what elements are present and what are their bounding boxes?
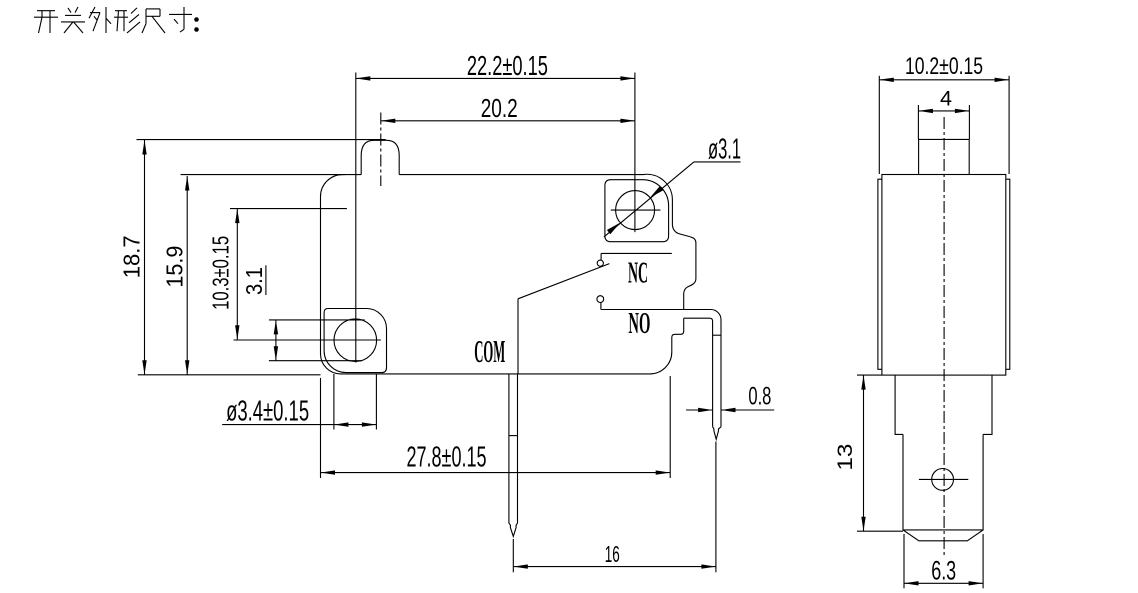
10.2 extension lines xyxy=(878,76,880,174)
NC fixed contact line xyxy=(601,252,672,254)
upper-right hole horizontal centerline xyxy=(611,209,661,211)
dimension 10.2±0.15 line (side view) xyxy=(879,79,1009,81)
NC contact circle xyxy=(597,260,603,266)
dimension 20.2 line xyxy=(381,120,635,122)
dimension 0.8 line xyxy=(686,409,713,411)
svg-text:6.3: 6.3 xyxy=(931,555,956,585)
switch body outline (front view) xyxy=(321,174,696,374)
side view left rib xyxy=(878,179,882,369)
side view right rib xyxy=(1006,179,1010,369)
13 top extension line xyxy=(857,374,882,376)
NO pin crimp tick xyxy=(713,334,721,336)
svg-text:10.2±0.15: 10.2±0.15 xyxy=(905,53,983,80)
side view plunger button xyxy=(919,139,970,174)
upper-right hole vertical centerline / 22.2-20.2 extension xyxy=(634,73,636,233)
dimension 18.7 line xyxy=(144,140,146,375)
svg-text:ø3.1: ø3.1 xyxy=(708,134,741,166)
3.1 top extension line xyxy=(269,319,365,321)
6.3 extension lines xyxy=(903,534,905,588)
18.7 top extension line xyxy=(137,139,386,141)
dimension 4 line (side view) xyxy=(918,110,969,112)
svg-text:22.2±0.15: 22.2±0.15 xyxy=(467,50,548,81)
16 left extension line xyxy=(512,539,514,572)
NO terminal bent pin inner edge xyxy=(684,318,713,427)
svg-text:4: 4 xyxy=(940,87,952,110)
side view body xyxy=(882,175,1006,376)
NO contact circle xyxy=(597,296,604,303)
dimension 27.8±0.15 line xyxy=(321,472,671,474)
COM lever vertical line xyxy=(517,299,519,374)
svg-text:15.9: 15.9 xyxy=(161,246,187,288)
side view terminal base block xyxy=(895,375,992,434)
side view centerline (dash-dot) xyxy=(943,117,945,556)
svg-text:16: 16 xyxy=(605,541,620,567)
15.9 top extension line xyxy=(181,174,345,176)
terminal hole horizontal centerline xyxy=(919,478,968,480)
dimension 13 line (side view) xyxy=(863,375,865,531)
lower-left hole horizontal centerline xyxy=(234,339,381,341)
svg-text:3.1: 3.1 xyxy=(241,267,267,295)
title 开关外形尺寸: (drawn strokes) xyxy=(34,7,199,33)
27.8 left extension line xyxy=(320,378,322,478)
side view terminal hole xyxy=(932,469,954,491)
movable lever from COM to NC xyxy=(518,264,609,299)
svg-text:ø3.4±0.15: ø3.4±0.15 xyxy=(226,396,309,428)
lower-left mounting hole Ø3.4 xyxy=(334,319,377,362)
dimension 6.3 line (side view) xyxy=(904,582,983,584)
svg-text:13: 13 xyxy=(834,444,857,471)
COM terminal pin xyxy=(509,374,518,537)
upper-right mounting hole Ø3.1 xyxy=(616,191,655,230)
dimension 3.1 line xyxy=(275,320,277,361)
dimension Ø3.4±0.15 extension lines xyxy=(333,374,335,430)
lower-left mounting pad xyxy=(324,309,386,373)
3.1 bottom extension line xyxy=(269,360,362,362)
dimension 15.9 line xyxy=(186,176,188,375)
svg-text:18.7: 18.7 xyxy=(119,235,145,278)
upper-right mounting pad xyxy=(605,180,669,242)
svg-text:27.8±0.15: 27.8±0.15 xyxy=(407,442,487,474)
side view terminal tab with chamfered tip xyxy=(903,434,983,540)
svg-text:0.8: 0.8 xyxy=(748,383,771,411)
svg-text:NO: NO xyxy=(628,305,650,340)
plunger button on body top xyxy=(361,140,399,174)
dimension 10.3±0.15 line xyxy=(236,209,238,340)
16 right extension line xyxy=(715,442,717,573)
NO pin tip xyxy=(713,427,721,440)
svg-text:NC: NC xyxy=(628,254,648,289)
10.3 top extension line xyxy=(230,208,347,210)
lower-left hole vertical centerline / 22.2 extension xyxy=(355,73,357,363)
COM pin crimp tick xyxy=(509,435,518,437)
4 extension lines xyxy=(917,105,919,139)
NO fixed contact line / NO terminal top edge xyxy=(601,310,721,427)
27.8 right extension line xyxy=(669,376,671,478)
dimension Ø3.4±0.15 line xyxy=(222,424,376,426)
dimension 16 line xyxy=(513,566,716,568)
13 bottom extension line xyxy=(857,530,903,532)
svg-text:10.3±0.15: 10.3±0.15 xyxy=(208,236,234,310)
Ø3.1 leader line xyxy=(604,162,694,237)
dimension 22.2±0.15 line xyxy=(356,77,635,79)
18.7/15.9 bottom extension line xyxy=(138,374,321,376)
side view tab chamfer line xyxy=(903,529,983,531)
svg-text:COM: COM xyxy=(474,333,505,369)
svg-text:20.2: 20.2 xyxy=(481,95,518,123)
button centerline (dash-dot) xyxy=(380,113,382,187)
